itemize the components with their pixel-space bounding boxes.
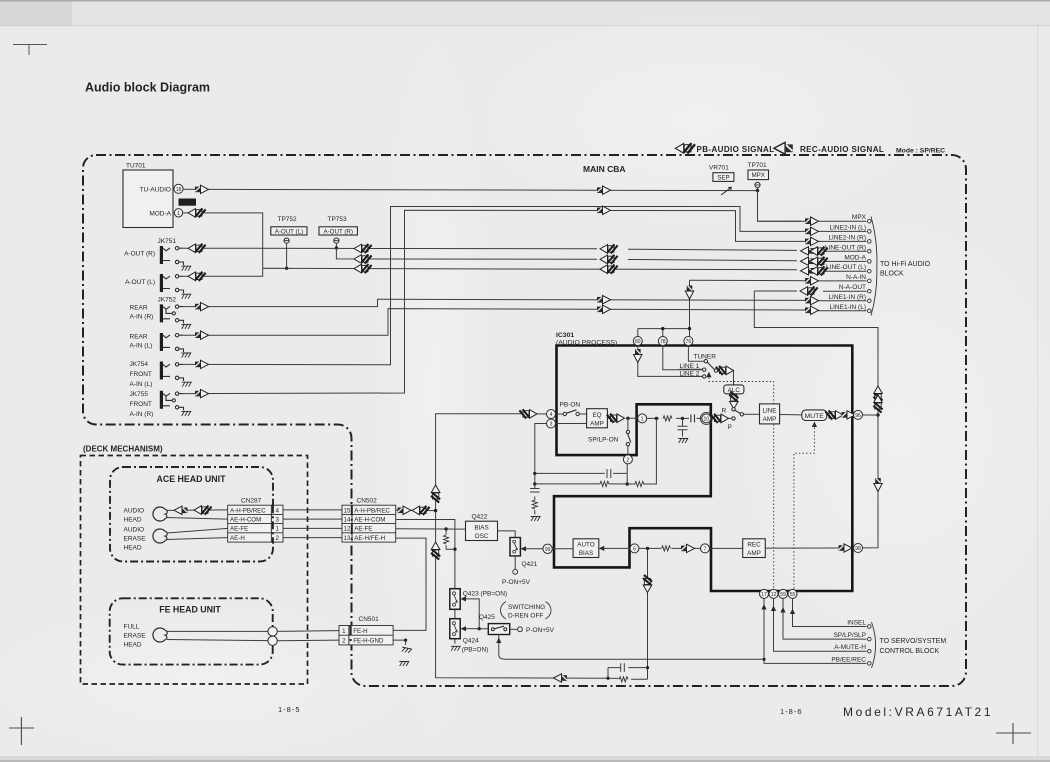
registration cross bottom-right (996, 723, 1031, 744)
junction TP752 (285, 267, 288, 270)
pin 80 (633, 337, 642, 346)
svg-text:CN287: CN287 (241, 498, 262, 505)
svg-text:R: R (722, 408, 727, 415)
jack JK752 upper body (160, 304, 184, 323)
svg-text:13: 13 (344, 535, 351, 542)
wire EQ AMP to pin 1 (607, 417, 637, 419)
svg-text:JK755: JK755 (130, 391, 149, 398)
svg-text:TU-AUDIO: TU-AUDIO (140, 186, 171, 193)
svg-text:BLOCK: BLOCK (880, 271, 904, 278)
wire pin17 to PB/EE/REC (764, 598, 867, 663)
svg-text:2: 2 (627, 457, 630, 463)
svg-text:INSEL: INSEL (847, 620, 866, 627)
svg-text:FE HEAD UNIT: FE HEAD UNIT (159, 605, 221, 615)
svg-text:99: 99 (545, 547, 551, 553)
jack JK751 upper body (160, 246, 184, 265)
wire pin55 to INSEL (793, 598, 867, 626)
junction TP753 (335, 246, 338, 249)
svg-text:A-OUT (R): A-OUT (R) (124, 251, 155, 258)
svg-text:(PB=ON): (PB=ON) (462, 646, 489, 653)
EQ AMP box (587, 409, 608, 428)
svg-text:ALC: ALC (728, 387, 741, 394)
FE head unit box (110, 598, 273, 664)
svg-text:1: 1 (641, 416, 644, 422)
svg-text:12: 12 (771, 592, 777, 598)
svg-text:(DECK MECHANISM): (DECK MECHANISM) (83, 445, 163, 454)
svg-text:Q425: Q425 (479, 614, 495, 621)
MUTE box (802, 410, 827, 421)
legend PB-AUDIO icon (675, 143, 695, 153)
BIAS OSC out to Q421 (498, 531, 516, 538)
svg-text:A-OUT (R): A-OUT (R) (323, 228, 352, 235)
svg-text:Model:VRA671AT21: Model:VRA671AT21 (843, 705, 993, 719)
svg-text:JK751: JK751 (158, 238, 177, 245)
svg-text:ERASE: ERASE (124, 633, 147, 640)
junction TU-AUDIO/MPX (756, 189, 759, 192)
border segments crossing tables (272, 505, 274, 542)
wire CN502 row15 to IC (396, 509, 436, 511)
wire pin3 into EQ AMP (556, 423, 587, 425)
svg-text:REC-AUDIO SIGNAL: REC-AUDIO SIGNAL (800, 145, 884, 154)
svg-text:TP752: TP752 (278, 216, 298, 223)
arrow on TU-AUDIO mid (597, 186, 611, 194)
svg-text:N-A-IN: N-A-IN (846, 274, 866, 281)
svg-text:1-8-5: 1-8-5 (278, 705, 301, 714)
jack JK751 lower body (160, 274, 184, 293)
svg-text:MOD-A: MOD-A (149, 210, 171, 217)
svg-text:AE-H-COM: AE-H-COM (354, 517, 385, 524)
svg-text:2: 2 (342, 638, 346, 645)
svg-text:FE-H: FE-H (353, 628, 367, 635)
pin 18 (174, 184, 183, 193)
FE head wires (167, 631, 268, 640)
svg-text:1: 1 (342, 628, 346, 635)
SEP box (713, 173, 734, 182)
selector control arrow (706, 372, 711, 378)
svg-text:JK752: JK752 (158, 297, 177, 304)
wire CN502 row14 to Q423/Q424 rail (396, 520, 455, 644)
pin 6 (630, 544, 639, 553)
svg-text:15: 15 (344, 507, 351, 514)
wire pin6 to AUTO BIAS with arrowhead (605, 547, 631, 549)
feedthrough circles on FE box edge (268, 627, 277, 636)
svg-text:P-ON+5V: P-ON+5V (502, 579, 531, 586)
svg-text:IC301: IC301 (556, 332, 574, 339)
svg-text:2: 2 (275, 535, 279, 542)
wire A-OUT(R) (183, 248, 867, 251)
resistor hang from row12 (446, 529, 455, 549)
svg-text:Q422: Q422 (472, 514, 488, 521)
AUTO BIAS box (573, 539, 599, 558)
Q423 (450, 589, 460, 610)
svg-text:HEAD: HEAD (124, 642, 142, 649)
svg-text:MAIN CBA: MAIN CBA (583, 164, 626, 174)
svg-text:SP/LP-ON: SP/LP-ON (588, 437, 619, 444)
svg-text:1-8-6: 1-8-6 (780, 707, 803, 716)
wire pin99 to AUTO BIAS (552, 548, 573, 550)
wire pin59 to SP/LP/SLP (783, 598, 867, 639)
svg-text:LINE: LINE (763, 407, 777, 414)
svg-text:3: 3 (275, 517, 279, 524)
svg-text:78: 78 (660, 339, 666, 345)
svg-text:CONTROL BLOCK: CONTROL BLOCK (880, 648, 940, 655)
svg-text:SP/LP/SLP: SP/LP/SLP (833, 632, 866, 639)
svg-text:AE-FE: AE-FE (354, 526, 372, 533)
svg-text:FRONT: FRONT (130, 401, 152, 408)
svg-text:1: 1 (275, 526, 279, 533)
TU701 box (123, 170, 173, 228)
dotted control MUTE to pin 55 (812, 422, 817, 428)
svg-text:MOD-A: MOD-A (844, 254, 866, 261)
arrow on TU-AUDIO at jack side (195, 185, 209, 193)
svg-text:FE-H-GND: FE-H-GND (353, 638, 384, 645)
wire ALC down to R contact (733, 394, 735, 397)
erase head wires to CN287 (166, 528, 228, 539)
dotted control line to pin 12 (709, 378, 774, 590)
bottom RC pair (608, 663, 648, 678)
svg-text:Q424: Q424 (463, 637, 479, 644)
svg-text:6: 6 (633, 546, 636, 552)
svg-text:AE-H: AE-H (230, 535, 245, 542)
wire REAR A-IN (L) (183, 309, 867, 336)
svg-text:3: 3 (550, 422, 553, 428)
svg-text:OSC: OSC (475, 533, 489, 540)
svg-text:LINE2-IN (R): LINE2-IN (R) (828, 234, 866, 241)
wire JK755 up to LINE2-IN(R) (183, 210, 867, 393)
svg-text:98: 98 (855, 546, 861, 552)
svg-text:N-A-OUT: N-A-OUT (839, 284, 866, 291)
svg-text:Q423 (PB=ON): Q423 (PB=ON) (463, 591, 507, 598)
svg-text:MPX: MPX (751, 172, 764, 179)
pin 78 (658, 337, 667, 346)
pin 59 (779, 589, 788, 598)
svg-text:VR701: VR701 (709, 165, 729, 172)
feedback wire lower with resistors (535, 418, 657, 484)
pin 17 (760, 589, 769, 598)
wire MOD-A out (183, 213, 263, 268)
REC AMP box (743, 539, 766, 558)
full erase head symbol (153, 628, 167, 642)
brace for Hi-Fi rows (871, 217, 877, 316)
WFB badge (179, 199, 197, 206)
row N-A-OUT (754, 290, 866, 292)
svg-text:AUDIO: AUDIO (124, 527, 145, 534)
legend REC-AUDIO icon (774, 142, 793, 154)
Q424 (450, 619, 460, 639)
svg-text:SWITCHING: SWITCHING (508, 604, 545, 611)
svg-text:ACE HEAD UNIT: ACE HEAD UNIT (157, 474, 227, 484)
svg-text:LINE2-IN (L): LINE2-IN (L) (830, 224, 866, 231)
svg-text:12: 12 (344, 526, 351, 533)
wire pin 4 to CN502 net (436, 414, 608, 679)
selector feed wires from pins 80/78/76 (638, 346, 704, 377)
registration cross bottom-left (9, 717, 34, 745)
svg-text:AE-H-COM: AE-H-COM (230, 517, 261, 524)
brace servo rows (872, 622, 876, 668)
arrows pin10 to P contact (711, 417, 732, 419)
svg-text:TU701: TU701 (126, 163, 146, 170)
ACE head unit box (110, 467, 273, 562)
svg-text:76: 76 (686, 339, 692, 345)
svg-text:Audio block Diagram: Audio block Diagram (85, 81, 210, 95)
svg-text:10: 10 (704, 416, 710, 422)
wire selector pole to ALC (718, 370, 734, 385)
svg-text:P: P (728, 424, 732, 431)
svg-text:A-IN (R): A-IN (R) (130, 411, 154, 418)
deck mechanism dashed box (81, 456, 308, 685)
svg-text:AMP: AMP (747, 550, 761, 557)
svg-text:P-ON+5V: P-ON+5V (526, 627, 555, 634)
svg-text:MPX: MPX (852, 214, 867, 221)
audio head wires to CN287 (166, 510, 228, 519)
pin 10 (double ring) (702, 414, 711, 423)
wire pin7 to REC AMP (710, 547, 743, 549)
wires CN287 to CN502 (283, 510, 342, 538)
jack JK755 body (160, 391, 184, 411)
svg-text:AMP: AMP (590, 421, 604, 428)
svg-text:SEP: SEP (717, 174, 729, 181)
svg-text:MUTE: MUTE (805, 413, 825, 420)
svg-text:CN501: CN501 (359, 616, 380, 623)
wire MUTE to pin 96 (827, 414, 854, 416)
wire REC AMP to pin 98 (765, 547, 853, 549)
svg-text:BIAS: BIAS (474, 525, 488, 532)
pin 96 (854, 410, 863, 419)
Q421 (510, 538, 520, 556)
pin 12 (769, 589, 778, 598)
MPX box (748, 170, 769, 180)
wire TU-AUDIO (183, 189, 757, 190)
CN501 row2 ground (393, 640, 406, 645)
svg-text:17: 17 (761, 592, 767, 598)
svg-text:Q421: Q421 (522, 561, 538, 568)
registration mark top-left (13, 45, 47, 56)
wire MOD-A row net (336, 248, 866, 261)
selector blade (707, 362, 714, 369)
TP753 box A-OUT (R) (319, 227, 357, 235)
wire pin 3 branch with RC to ground (530, 424, 547, 515)
svg-text:A-IN (L): A-IN (L) (130, 343, 153, 350)
wire LINE AMP to MUTE (780, 414, 802, 416)
row MPX (805, 217, 819, 225)
svg-text:TO Hi-Fi AUDIO: TO Hi-Fi AUDIO (880, 261, 931, 268)
erase head symbol (153, 529, 167, 543)
feedback wire upper with series cap (535, 469, 627, 478)
svg-text:LINE1-IN (L): LINE1-IN (L) (830, 304, 866, 311)
svg-text:D-REN OFF: D-REN OFF (508, 613, 543, 620)
wire pin12 to A-MUTE-H (774, 598, 867, 651)
svg-text:4: 4 (550, 412, 553, 418)
pin 98 (854, 544, 863, 553)
svg-text:AUTO: AUTO (577, 542, 594, 549)
svg-text:REAR: REAR (130, 305, 148, 312)
svg-text:PB-ON: PB-ON (560, 402, 581, 409)
svg-text:BIAS: BIAS (579, 550, 593, 557)
pin 2 (623, 455, 632, 464)
svg-text:LINE1-IN (R): LINE1-IN (R) (828, 294, 866, 301)
wire pin99 to Q421 (526, 548, 543, 550)
VR701 wiper (721, 187, 732, 195)
svg-text:(AUDIO PROCESS): (AUDIO PROCESS) (556, 340, 617, 347)
pin 7 (701, 544, 710, 553)
svg-text:EQ: EQ (592, 412, 601, 419)
svg-text:JK754: JK754 (130, 361, 149, 368)
pin 1 of TU701 (174, 209, 182, 217)
svg-text:PB/EE/REC: PB/EE/REC (831, 656, 866, 663)
TP701 test point (755, 182, 760, 187)
row N-A-IN (690, 279, 867, 282)
TP752 box A-OUT (L) (271, 227, 307, 235)
svg-text:A-OUT (L): A-OUT (L) (275, 228, 303, 235)
pin 4 (547, 410, 556, 419)
IC301 outline (554, 346, 852, 592)
svg-text:A-IN (R): A-IN (R) (130, 314, 154, 321)
down arrow below pin 80 (634, 349, 642, 363)
MAIN CBA dash-dot border (83, 155, 966, 686)
Q425 control from P-ON rail (499, 635, 764, 660)
jack JK754 body (160, 362, 184, 382)
wire JK754 up to LINE2-IN(L) (183, 207, 867, 365)
svg-text:A-OUT (L): A-OUT (L) (125, 279, 155, 286)
wire CN502 row12 to BIAS OSC (396, 528, 466, 530)
svg-text:4: 4 (275, 507, 279, 514)
TP753 test point (334, 238, 339, 243)
svg-text:A-IN (L): A-IN (L) (130, 381, 153, 388)
svg-text:AE-FE: AE-FE (230, 526, 248, 533)
svg-text:1: 1 (177, 211, 180, 217)
svg-text:FRONT: FRONT (130, 371, 152, 378)
svg-text:Mode : SP/REC: Mode : SP/REC (896, 148, 945, 155)
svg-text:A-H-PB/REC: A-H-PB/REC (354, 507, 390, 514)
vertical bias rail x647 (631, 548, 648, 679)
Q423 control wire (466, 599, 488, 629)
svg-text:14: 14 (344, 517, 351, 524)
audio head symbol (153, 507, 167, 521)
internal wire pin1 to pin10 (647, 417, 702, 419)
pin 1 (638, 414, 647, 423)
jack JK752 lower body (160, 333, 184, 352)
svg-text:HEAD: HEAD (124, 517, 142, 524)
LINE AMP box (760, 404, 780, 424)
svg-text:18: 18 (176, 187, 182, 193)
Q425 out to P-ON (510, 628, 518, 630)
svg-text:LINE-OUT (R): LINE-OUT (R) (825, 244, 866, 251)
pin 3 (547, 419, 556, 428)
wire down to MPX row (758, 191, 802, 222)
TP752 test point (284, 238, 289, 243)
svg-text:TO SERVO/SYSTEM: TO SERVO/SYSTEM (880, 638, 947, 645)
svg-text:7: 7 (704, 546, 707, 552)
arrow on P-ON rail (554, 674, 568, 682)
svg-text:AUDIO: AUDIO (124, 508, 145, 515)
svg-text:CN502: CN502 (357, 498, 378, 505)
wire N-A-OUT loop to pin 96/98 column (754, 291, 878, 548)
wire CN502 row13 down to CN501 FE-H (393, 538, 426, 630)
wire pin6 to pin7 (639, 547, 701, 549)
ALC box (724, 385, 744, 394)
wire REAR A-IN (R) (183, 299, 867, 306)
svg-text:ERASE: ERASE (124, 536, 147, 543)
svg-text:59: 59 (780, 592, 786, 598)
svg-text:LINE-OUT (L): LINE-OUT (L) (826, 264, 866, 271)
svg-text:REC: REC (747, 542, 761, 549)
shunt capacitor to ground (678, 418, 688, 436)
svg-text:55: 55 (790, 592, 796, 598)
wire N-A-IN vertical into IC pins (638, 280, 690, 337)
pin 99 (543, 544, 552, 553)
svg-text:PB-AUDIO SIGNAL: PB-AUDIO SIGNAL (697, 145, 775, 154)
svg-text:TP701: TP701 (748, 162, 768, 169)
svg-text:AE-H/FE-H: AE-H/FE-H (354, 535, 385, 542)
pin 55 (788, 589, 797, 598)
arrows MOD-A (188, 208, 206, 217)
svg-text:TP753: TP753 (328, 216, 348, 223)
svg-text:96: 96 (855, 413, 861, 419)
svg-text:A-H-PB/REC: A-H-PB/REC (230, 507, 266, 514)
svg-text:80: 80 (635, 339, 641, 345)
svg-text:WFB: WFB (181, 201, 194, 207)
svg-text:FULL: FULL (124, 624, 140, 631)
pin 76 (684, 337, 693, 346)
svg-text:A-MUTE-H: A-MUTE-H (834, 644, 866, 651)
light tonal patches of the scan (0, 0, 1, 1)
svg-text:AMP: AMP (763, 416, 777, 423)
wire pole to LINE AMP (744, 413, 760, 415)
svg-text:HEAD: HEAD (124, 545, 142, 552)
svg-text:REAR: REAR (130, 334, 148, 341)
wire A-OUT(L) net (183, 268, 867, 276)
